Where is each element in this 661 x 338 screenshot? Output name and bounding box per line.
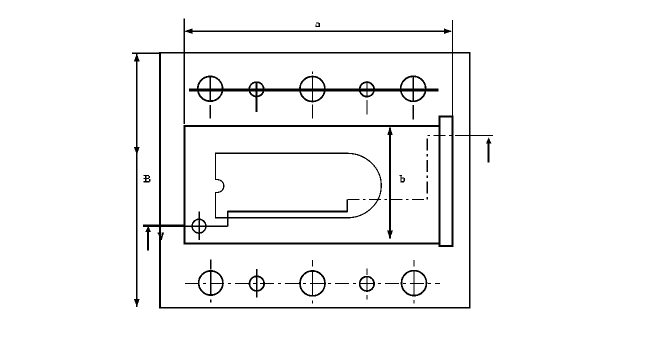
hole T4 vertical centerline [366,81,368,114]
dimension a: extension line left [183,19,185,124]
bottom hole row chain centerline [185,282,440,284]
hole B3 vertical centerline [312,260,314,304]
hole T4 [360,82,374,96]
dimension B: bottom arrowhead down [134,299,140,307]
entry hole vertical centerline [198,211,200,240]
entry hole circle [192,219,206,233]
hole B1 vertical centerline [210,260,212,303]
hole B5 [402,271,427,296]
feed arrow V leader [146,226,151,251]
feed arrow right leader [486,137,491,162]
dimension a: right arrowhead [444,28,452,34]
entry slot thick line [143,224,185,227]
hole T5 vertical centerline [412,76,414,120]
toolpath vertical to entry hole [227,211,229,227]
dimension B: vertical dimension line [136,54,138,307]
label b [400,175,405,182]
toolpath chain line (dash-dot) [347,135,493,199]
dimension B: top arrowhead up [134,53,140,61]
hole T5 [401,76,426,101]
dimension b: bottom arrowhead down [387,231,393,239]
hole T2 [249,82,263,96]
label B [144,175,151,183]
hole B3 [300,271,325,296]
hole B4 [360,277,374,291]
dimension B: top extension line [132,52,160,54]
dimension a: dimension line [186,30,452,32]
dimension B: middle arrowhead down [134,147,140,155]
entry slot thin line through hole [185,225,228,227]
outer plate rectangle [160,53,470,308]
hole T2 vertical centerline [256,83,258,113]
hole T1 [198,76,223,101]
dimension b: vertical dimension line [389,128,391,239]
hole B4 vertical centerline [366,269,368,300]
slot contour with left notch and right arc [216,153,382,218]
hole T1 vertical centerline [209,76,211,119]
hole B5 vertical centerline [413,260,415,304]
milling cutter rectangle [440,117,453,246]
hole B2 vertical centerline [256,269,258,298]
pocket rectangle [184,126,439,244]
label V [158,233,164,241]
hole B1 [199,271,223,295]
dimension b: top arrowhead up [387,127,393,135]
toolpath thick cut line [228,210,348,212]
hole T3 [300,77,325,102]
top hole row centerline [189,89,438,92]
toolpath step vertical [346,200,348,213]
dimension a: left arrowhead [185,28,193,34]
hole B2 [249,276,264,291]
label a [316,22,320,27]
dimension a: extension line right [451,20,453,116]
hole T3 vertical centerline [311,71,313,118]
